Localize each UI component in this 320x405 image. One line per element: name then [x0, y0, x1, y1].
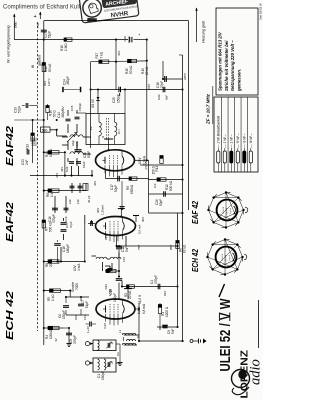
svg-text:Ulei 52/52 W: Ulei 52/52 W [259, 3, 263, 20]
svg-text:460pF: 460pF [61, 109, 65, 118]
svg-text:7000: 7000 [75, 283, 79, 290]
svg-text:4 mA: 4 mA [77, 263, 81, 271]
svg-text:3,2V: 3,2V [103, 323, 107, 329]
svg-text:10,7: 10,7 [118, 129, 121, 134]
svg-text:EAF42: EAF42 [4, 126, 16, 166]
svg-text:Compliments of Eckhard Kull: Compliments of Eckhard Kull [3, 5, 80, 11]
svg-text:92V: 92V [163, 291, 167, 296]
svg-text:1,25mA: 1,25mA [101, 205, 105, 215]
svg-text:50pF: 50pF [114, 185, 118, 192]
svg-text:4V: 4V [54, 338, 58, 342]
svg-text:51pF: 51pF [48, 31, 52, 38]
svg-text:0,8V: 0,8V [147, 84, 151, 90]
svg-text:10nF: 10nF [82, 161, 86, 168]
svg-text:C22: C22 [65, 166, 69, 172]
svg-text:gelb/rot: gelb/rot [38, 54, 42, 66]
svg-text:•1 2•3 4: •1 2•3 4 [222, 253, 224, 261]
svg-text:370pF: 370pF [52, 214, 56, 223]
svg-text:10 kΩ: 10 kΩ [49, 148, 53, 157]
svg-text:— 1 W –: — 1 W – [230, 134, 234, 149]
svg-text:— ¼ W –: — ¼ W – [243, 133, 247, 149]
svg-text:4,5mA: 4,5mA [144, 161, 148, 170]
svg-text:100kΩ: 100kΩ [49, 329, 53, 339]
svg-text:R17: R17 [95, 52, 99, 58]
svg-text:14V: 14V [83, 315, 87, 320]
svg-text:42V: 42V [60, 167, 64, 172]
svg-text:85V: 85V [169, 245, 173, 250]
svg-text:30V: 30V [96, 208, 100, 213]
svg-text:1 kΩ: 1 kΩ [51, 294, 55, 301]
svg-text:C25: C25 [112, 97, 116, 103]
svg-text:1nF: 1nF [76, 199, 80, 204]
svg-text:5•6 7•8: 5•6 7•8 [226, 254, 228, 261]
svg-text:— ⅛ W –: — ⅛ W – [249, 133, 253, 149]
svg-text:20 kΩ: 20 kΩ [145, 66, 149, 75]
svg-text:+: + [34, 14, 37, 20]
svg-text:Heizung gelb: Heizung gelb [202, 21, 206, 43]
svg-text:5nF: 5nF [171, 328, 175, 334]
svg-text:— 1 W –: — 1 W – [223, 134, 227, 149]
svg-text:— 2 W Belastbarkeit: — 2 W Belastbarkeit [217, 115, 221, 149]
svg-text:50pF: 50pF [159, 199, 163, 206]
svg-text:5nF: 5nF [165, 95, 169, 100]
svg-text:460pF: 460pF [66, 76, 70, 85]
svg-text:57pF: 57pF [18, 106, 22, 113]
svg-text:50 kΩ: 50 kΩ [48, 63, 52, 72]
svg-text:150pF: 150pF [117, 94, 121, 103]
svg-text:150pF: 150pF [101, 371, 105, 380]
svg-text:20 kΩ: 20 kΩ [49, 258, 53, 267]
svg-text:150pF: 150pF [62, 310, 66, 319]
svg-text:500 kΩ: 500 kΩ [169, 180, 173, 191]
svg-text:30V: 30V [141, 217, 145, 222]
svg-text:R11: R11 [155, 166, 159, 172]
svg-text:50 kΩ: 50 kΩ [129, 65, 133, 74]
svg-text:•1 2•3 4: •1 2•3 4 [223, 206, 225, 214]
svg-text:62 kΩ: 62 kΩ [183, 244, 187, 253]
svg-text:50pF: 50pF [87, 151, 91, 158]
svg-text:110 V: 110 V [47, 79, 51, 86]
svg-text:31,5 V: 31,5 V [138, 294, 142, 304]
svg-text:EAF42: EAF42 [4, 202, 16, 242]
svg-text:1nF: 1nF [153, 183, 157, 188]
svg-text:370pF: 370pF [154, 275, 158, 284]
svg-text:500 kΩ: 500 kΩ [49, 221, 53, 232]
svg-text:C2: C2 [116, 352, 120, 356]
svg-text:ECH 42: ECH 42 [4, 291, 16, 340]
svg-text:W.- und Regelspannung: W.- und Regelspannung [7, 25, 11, 63]
svg-text:C15: C15 [70, 105, 74, 111]
svg-text:46V: 46V [117, 51, 121, 56]
svg-text:R13: R13 [26, 144, 30, 150]
svg-text:7 kΩ: 7 kΩ [100, 51, 104, 58]
svg-text:75V: 75V [137, 245, 141, 250]
svg-text:SS 60: SS 60 [91, 99, 95, 108]
svg-text:46V: 46V [93, 181, 97, 186]
svg-text:ECH 42: ECH 42 [191, 248, 200, 272]
svg-text:6,8 mA: 6,8 mA [142, 303, 146, 314]
svg-text:225V: 225V [183, 73, 187, 80]
svg-text:1200 Ω: 1200 Ω [165, 306, 169, 317]
svg-text:Spannungen mit 664 R13 2/V: Spannungen mit 664 R13 2/V [218, 31, 223, 91]
svg-text:580: 580 [42, 128, 48, 132]
svg-text:gemessen.: gemessen. [236, 69, 241, 92]
svg-text:10 V: 10 V [138, 157, 142, 164]
svg-text:2nF: 2nF [25, 159, 29, 165]
svg-text:adio: adio [248, 359, 264, 385]
svg-text:— ½ W –: — ½ W – [236, 133, 240, 149]
svg-text:40 pF: 40 pF [87, 195, 91, 203]
svg-text:5,6 mA: 5,6 mA [138, 225, 142, 234]
svg-text:12V: 12V [122, 257, 126, 262]
svg-text:50pF: 50pF [127, 36, 131, 43]
svg-text:1+4V: 1+4V [86, 326, 90, 333]
svg-text:5nF: 5nF [125, 246, 129, 252]
svg-text:2V: 2V [89, 126, 93, 130]
svg-text:1nF: 1nF [68, 199, 72, 204]
svg-text:180pF: 180pF [66, 244, 70, 253]
svg-text:51pF: 51pF [85, 301, 89, 308]
svg-text:L1: L1 [118, 329, 122, 333]
svg-text:ZF = 10,7 MHz: ZF = 10,7 MHz [206, 93, 211, 125]
svg-text:Abgl.: Abgl. [71, 140, 75, 146]
svg-text:R21: R21 [104, 284, 108, 290]
svg-text:650kΩ: 650kΩ [130, 184, 134, 194]
svg-text:5•6 7•8: 5•6 7•8 [227, 207, 229, 214]
svg-text:1 MΩ: 1 MΩ [64, 43, 68, 51]
svg-text:150pF: 150pF [78, 102, 82, 111]
svg-text:C13: C13 [64, 216, 68, 222]
svg-text:370pF: 370pF [73, 335, 77, 344]
svg-text:10 kΩ: 10 kΩ [34, 137, 38, 146]
svg-text:Netzspannung 220 Volt ~: Netzspannung 220 Volt ~ [230, 40, 235, 91]
svg-text:1 kΩ: 1 kΩ [50, 190, 54, 197]
svg-text:ULEI 52 / V W: ULEI 52 / V W [218, 298, 234, 371]
svg-text:M: M [102, 136, 105, 138]
svg-text:20 kΩ: 20 kΩ [128, 290, 132, 299]
svg-text:3?pF: 3?pF [69, 221, 73, 228]
svg-text:50 Ω: 50 Ω [53, 110, 57, 117]
svg-text:C20: C20 [157, 94, 161, 100]
svg-text:EAF 42: EAF 42 [191, 200, 200, 224]
svg-text:42V: 42V [55, 173, 59, 178]
svg-text:150pF: 150pF [113, 293, 117, 302]
svg-text:Striche mit Voltmeter bei: Striche mit Voltmeter bei [224, 40, 229, 91]
svg-text:150 Ω: 150 Ω [152, 165, 156, 174]
